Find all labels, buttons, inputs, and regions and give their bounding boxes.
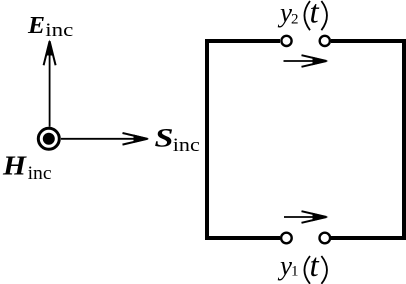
terminal: bottom-right circle (320, 233, 331, 244)
svg-text:inc: inc (173, 135, 200, 156)
wire: loop left half (top-left, left side, bottom-left) (207, 41, 280, 238)
label y1(t) (277, 248, 327, 284)
svg-text:y: y (277, 0, 292, 27)
terminal: bottom-left circle (281, 233, 292, 244)
svg-text:t: t (310, 248, 320, 284)
terminal: top-right circle (320, 36, 330, 46)
arrow: current direction at bottom port (284, 211, 327, 223)
svg-text:H: H (2, 151, 27, 181)
arrow: current direction at top port (284, 55, 327, 67)
svg-text:inc: inc (28, 163, 52, 184)
svg-text:y: y (277, 250, 292, 280)
svg-text:S: S (155, 123, 174, 152)
label y2(t) (277, 0, 327, 31)
svg-text:inc: inc (45, 20, 73, 41)
arrow: E field vector (upward) (44, 41, 56, 127)
wire: loop right half (top-right, right side, bottom-right) (331, 41, 404, 238)
svg-text:2: 2 (291, 12, 299, 28)
node: H field out-of-page symbol (circled dot) (38, 128, 59, 149)
arrow: S Poynting vector (rightward) (61, 133, 148, 145)
svg-text:E: E (27, 13, 45, 39)
terminal: top-left circle (281, 36, 291, 46)
svg-text:1: 1 (291, 264, 299, 280)
svg-text:t: t (310, 0, 320, 31)
